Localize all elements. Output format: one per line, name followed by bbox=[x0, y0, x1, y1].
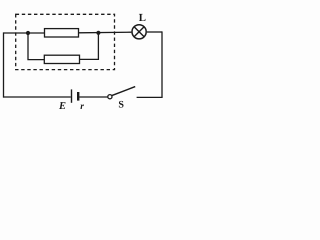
wire: switch pivot to battery bbox=[79, 96, 107, 98]
svg-text:L: L bbox=[139, 12, 146, 24]
wire: bottom-right to switch fixed contact bbox=[137, 96, 163, 98]
wire: R1 right to lamp bbox=[79, 31, 132, 34]
resistor R1 (upper) bbox=[45, 29, 79, 37]
resistor R2 (lower) bbox=[44, 55, 79, 63]
battery: long thin plate (positive) bbox=[71, 89, 73, 102]
svg-text:S: S bbox=[118, 100, 124, 111]
node B (junction dot, right) bbox=[96, 31, 100, 35]
svg-text:r: r bbox=[80, 102, 84, 112]
switch S (open blade + pivot) bbox=[108, 87, 135, 99]
wire: battery to bottom-left corner bbox=[3, 96, 71, 98]
battery: short thick plate (negative) bbox=[77, 92, 79, 101]
node A (junction dot, left) bbox=[26, 31, 30, 35]
wire: lamp to top-right corner bbox=[147, 31, 162, 33]
wire: lower branch right (R2 up to node B) bbox=[80, 33, 99, 59]
wire: top-left corner to upper resistor R1 bbox=[4, 32, 45, 34]
wire: right side vertical bbox=[161, 31, 163, 97]
wire: lower branch left (from node A down to R2) bbox=[28, 33, 44, 60]
svg-text:E: E bbox=[58, 101, 66, 112]
dashed box (black-box boundary) bbox=[16, 14, 115, 69]
lamp L (circle with X) bbox=[132, 25, 146, 39]
wire: left side vertical bbox=[3, 32, 5, 97]
